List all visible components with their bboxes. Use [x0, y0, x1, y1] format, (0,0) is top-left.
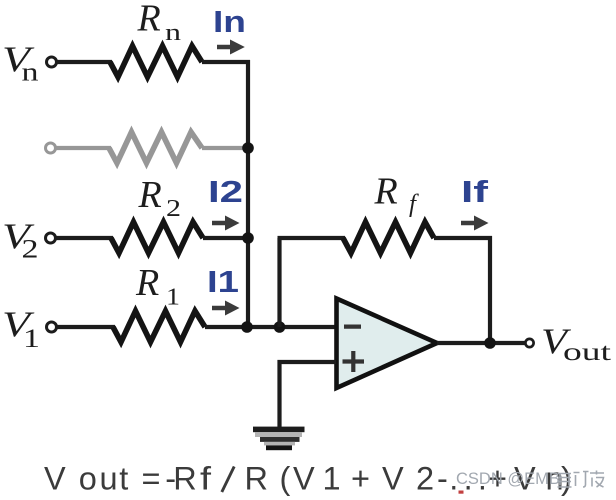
svg-text:If: If: [461, 174, 489, 209]
resistor (ellipsis, gray): [109, 132, 202, 163]
ground: [253, 427, 305, 451]
arrow I2: [212, 216, 240, 231]
svg-text:R: R: [374, 171, 398, 213]
node V2 input terminal: [2, 216, 56, 264]
op-amp minus sign: [344, 325, 361, 329]
terminal circle V1: [47, 322, 57, 332]
wire R2 to bus: [203, 236, 248, 240]
resistor R1: [113, 311, 205, 342]
wire feedback left vertical: [277, 238, 281, 327]
svg-text:R: R: [137, 0, 161, 40]
arrow I1: [212, 301, 240, 316]
label Rf: [374, 171, 420, 218]
junction dot bus/V1: [241, 321, 253, 333]
junction dot gray row: [242, 142, 254, 154]
svg-text:R: R: [138, 174, 162, 216]
svg-text:2: 2: [166, 196, 181, 222]
label Rn: [137, 0, 182, 46]
label R2: [138, 174, 182, 222]
svg-text:CSDN @EMB: CSDN @EMB: [456, 470, 560, 488]
op-amp plus sign: [343, 351, 365, 372]
svg-text:f: f: [409, 191, 419, 218]
svg-text:R: R: [135, 262, 159, 304]
arrow If: [461, 216, 489, 231]
svg-text:1: 1: [23, 324, 40, 353]
svg-text:2: 2: [22, 235, 39, 264]
junction dot feedback/V1: [274, 321, 286, 333]
node Vn input terminal: [2, 39, 57, 87]
wire gray resistor to bus: [202, 146, 246, 150]
svg-text:1: 1: [166, 285, 180, 311]
wire non-inverting input to ground: [280, 362, 337, 429]
terminal circle (ellipsis input, gray): [46, 143, 56, 153]
wire V1 to R1: [57, 325, 115, 329]
terminal circle V2: [46, 233, 56, 243]
svg-text:I1: I1: [207, 264, 239, 299]
op-amp U1: [337, 299, 438, 389]
label R1: [135, 262, 180, 311]
svg-text:n: n: [22, 58, 39, 87]
wire V2 to R2: [56, 236, 113, 240]
svg-text:In: In: [213, 4, 246, 39]
wire R1 to op-amp inverting input: [205, 325, 337, 329]
arrow In: [217, 40, 245, 55]
terminal circle Vn: [47, 57, 57, 67]
resistor Rf: [343, 222, 434, 253]
junction dot V2 row: [242, 232, 254, 244]
svg-text:f: f: [200, 461, 212, 497]
watermark red tick: [459, 491, 464, 494]
wire summing bus vertical: [246, 60, 250, 327]
wire Vn to Rn: [57, 60, 112, 64]
node V1 input terminal: [2, 304, 57, 353]
wire gray input: [56, 146, 111, 150]
resistor Rn: [110, 46, 202, 77]
label Vout: [541, 321, 611, 366]
svg-text:out: out: [563, 339, 611, 366]
terminal circle Vout: [525, 339, 533, 347]
wire feedback left horizontal to Rf: [278, 236, 346, 240]
formula slash: [222, 467, 234, 493]
wire Rf to output vertical: [434, 236, 492, 240]
junction dot output/feedback: [484, 337, 496, 349]
svg-text:n: n: [165, 20, 181, 46]
watermark CJK glyphs (drawn): [558, 471, 605, 488]
svg-text:I2: I2: [208, 174, 243, 209]
wire op-amp output: [437, 341, 525, 345]
wire feedback right vertical: [488, 236, 492, 343]
resistor R2: [111, 222, 203, 253]
wire Rn to bus corner: [202, 60, 250, 64]
